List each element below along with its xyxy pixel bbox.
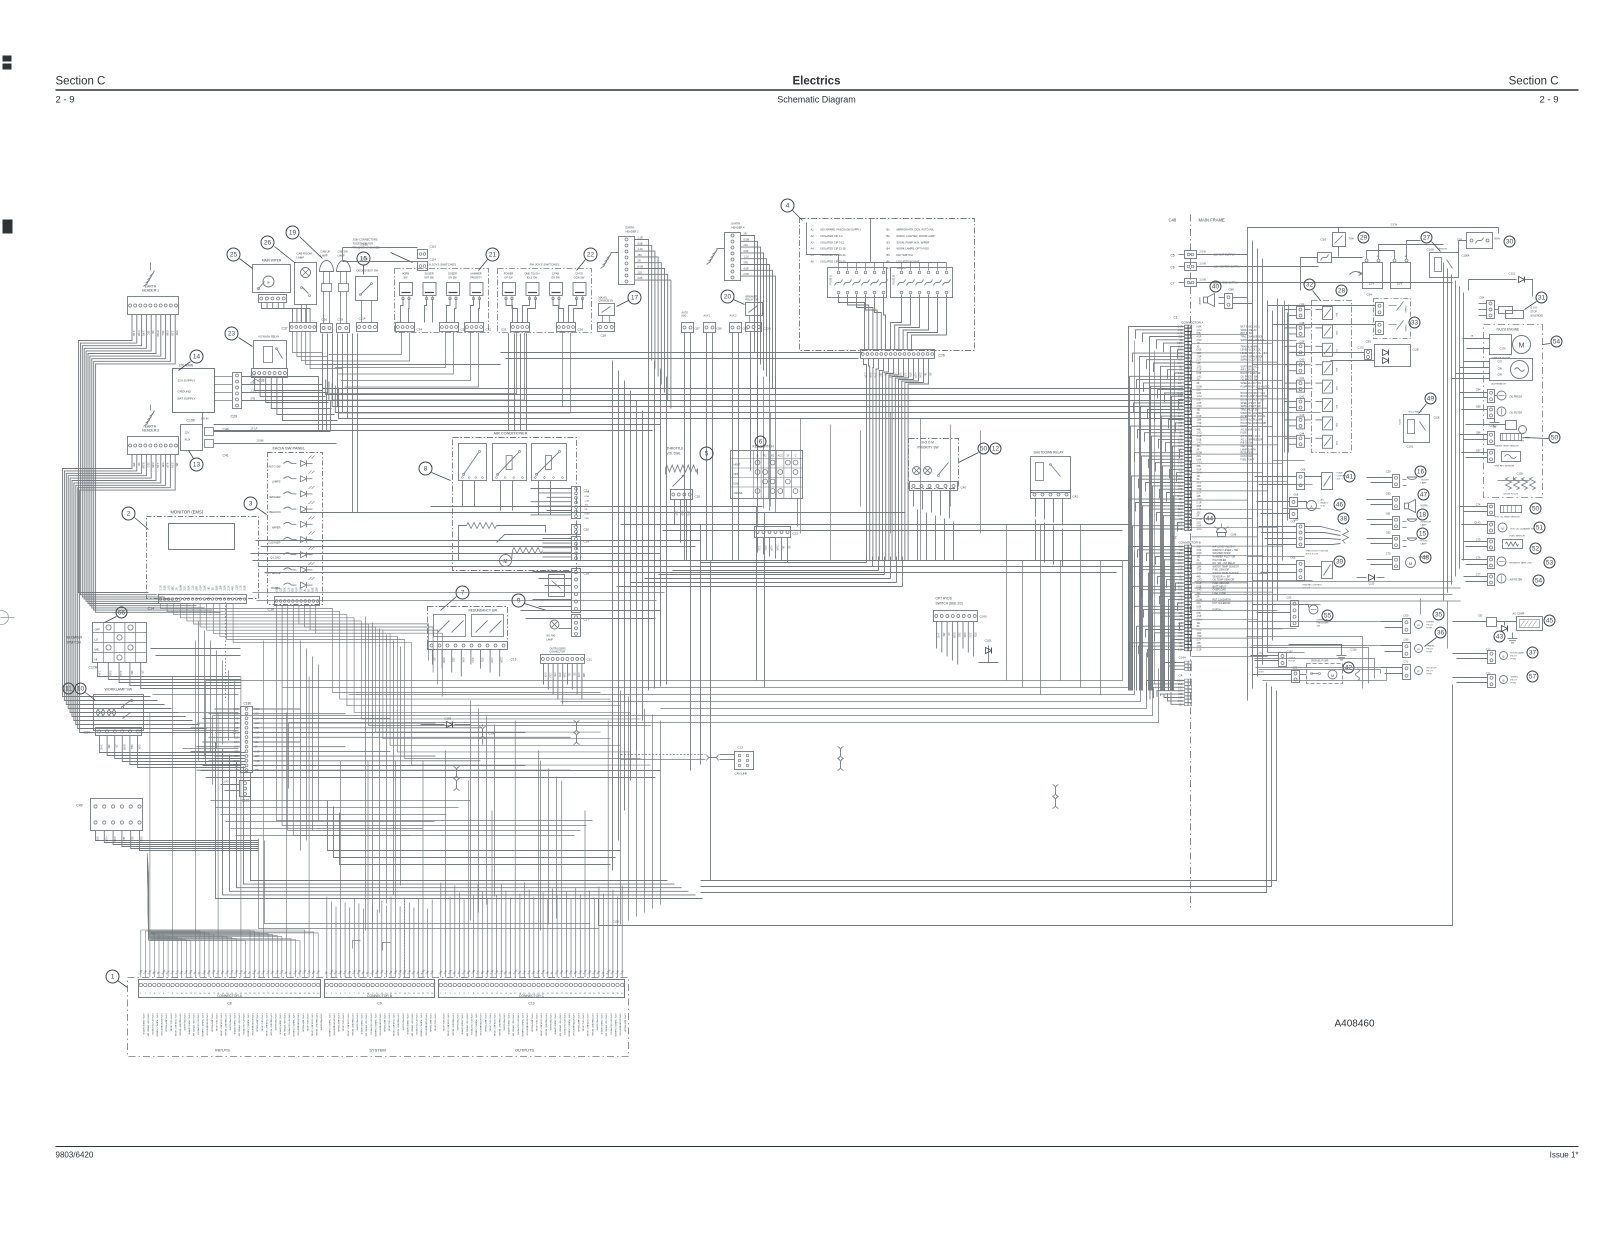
svg-text:C29: C29 bbox=[1386, 470, 1391, 474]
svg-text:UPS HIGH SPEED SW: UPS HIGH SPEED SW bbox=[147, 1014, 149, 1038]
svg-text:BAT SUPPLY: BAT SUPPLY bbox=[178, 397, 196, 401]
left riser bundle from C49 region bbox=[259, 839, 599, 929]
svg-text:19: 19 bbox=[289, 230, 297, 237]
svg-text:4.5P: 4.5P bbox=[296, 587, 299, 592]
worklamp wires bbox=[100, 736, 246, 768]
connector C20 bbox=[671, 490, 701, 500]
facia wires bbox=[277, 606, 593, 836]
main frame divider bbox=[1169, 215, 1225, 909]
callout 54 engine bbox=[1543, 336, 1563, 347]
svg-text:12V: 12V bbox=[1369, 282, 1376, 286]
svg-text:CONNECTOR B: CONNECTOR B bbox=[1179, 541, 1201, 545]
svg-text:1.2U: 1.2U bbox=[548, 673, 550, 678]
svg-text:12W: 12W bbox=[220, 585, 223, 591]
svg-text:UPS PRESSURE: UPS PRESSURE bbox=[502, 1014, 504, 1032]
svg-text:2.2Y: 2.2Y bbox=[1197, 640, 1202, 642]
mid-left distribution horizontals bbox=[153, 695, 471, 836]
mid-left verticals bbox=[199, 617, 557, 931]
svg-text:C98: C98 bbox=[1498, 368, 1503, 371]
svg-text:B3: B3 bbox=[887, 240, 891, 244]
svg-text:C12B: C12B bbox=[613, 920, 620, 924]
svg-text:C75: C75 bbox=[1476, 538, 1481, 542]
monitor wires bbox=[161, 599, 651, 766]
svg-text:C29: C29 bbox=[231, 415, 238, 419]
svg-text:44B: 44B bbox=[1197, 429, 1202, 431]
svg-text:C159: C159 bbox=[445, 717, 452, 721]
callout 40 bbox=[1210, 281, 1221, 292]
svg-text:16L: 16L bbox=[175, 463, 179, 468]
control unit box 14 bbox=[173, 364, 215, 413]
svg-text:KEY SWITCH: KEY SWITCH bbox=[897, 253, 913, 257]
svg-text:SOL: SOL bbox=[1337, 311, 1339, 316]
svg-text:21G: 21G bbox=[452, 658, 455, 663]
svg-text:UPS FUEL LEVEL: UPS FUEL LEVEL bbox=[489, 1014, 491, 1033]
callout 57 bbox=[1527, 671, 1538, 682]
callout 2 bbox=[122, 507, 149, 530]
svg-text:4.5P: 4.5P bbox=[200, 585, 203, 590]
svg-text:49: 49 bbox=[1427, 396, 1435, 403]
alternator bbox=[1452, 359, 1533, 386]
svg-text:SLIDER: SLIDER bbox=[424, 273, 433, 276]
bus J extensions bbox=[701, 683, 1277, 893]
svg-text:UP/TRANSMIT RELAY: UP/TRANSMIT RELAY bbox=[269, 1014, 272, 1037]
battery links bbox=[1350, 241, 1444, 276]
svg-text:UPS KEY ON PRESS: UPS KEY ON PRESS bbox=[415, 1014, 417, 1036]
svg-text:C8: C8 bbox=[227, 1002, 231, 1006]
svg-text:WASHER: WASHER bbox=[269, 495, 280, 499]
vertical trunk x913-955 bbox=[918, 510, 954, 561]
svg-text:UP/TRANSMIT RELAY: UP/TRANSMIT RELAY bbox=[451, 1014, 454, 1037]
header rule bbox=[56, 89, 1579, 91]
svg-text:PILOT: PILOT bbox=[1511, 680, 1518, 682]
svg-text:C100: C100 bbox=[1517, 472, 1524, 476]
svg-text:LAMP: LAMP bbox=[321, 254, 328, 258]
svg-text:C84: C84 bbox=[1476, 388, 1481, 392]
svg-text:2R: 2R bbox=[151, 331, 155, 334]
svg-text:WORKLAMP SW: WORKLAMP SW bbox=[105, 688, 133, 692]
svg-text:OIL FILTER: OIL FILTER bbox=[1510, 412, 1523, 415]
wiper group wires bbox=[497, 489, 572, 557]
svg-text:C172: C172 bbox=[1358, 346, 1365, 350]
engine feeders bbox=[1444, 263, 1464, 601]
svg-text:UPS TRAVEL CHANGE: UPS TRAVEL CHANGE bbox=[521, 1014, 524, 1038]
svg-text:2.5N: 2.5N bbox=[113, 837, 116, 842]
svg-text:7.5R: 7.5R bbox=[1197, 570, 1202, 572]
svg-text:RADIO, LIGHTER, ROOM LAMP: RADIO, LIGHTER, ROOM LAMP bbox=[897, 234, 935, 238]
ac ready switch 46 bbox=[1257, 493, 1329, 522]
connector C26 bbox=[861, 350, 945, 359]
bus I group bbox=[328, 801, 621, 865]
svg-text:A2: A2 bbox=[811, 234, 815, 238]
svg-text:LAMP: LAMP bbox=[1421, 543, 1427, 546]
svg-text:30: 30 bbox=[1506, 239, 1514, 246]
callout 13 bbox=[189, 451, 204, 472]
svg-text:57B: 57B bbox=[196, 586, 199, 591]
svg-text:36: 36 bbox=[1437, 630, 1445, 637]
svg-text:HYD OIL CLEANER SW: HYD OIL CLEANER SW bbox=[1511, 528, 1536, 531]
footer text bbox=[56, 1151, 1579, 1160]
svg-text:MONITOR (EMS): MONITOR (EMS) bbox=[171, 510, 204, 515]
facia switch panel bbox=[266, 446, 323, 605]
svg-text:C92: C92 bbox=[1478, 614, 1483, 618]
svg-text:54: 54 bbox=[1535, 578, 1543, 585]
svg-text:C43: C43 bbox=[1300, 413, 1305, 417]
svg-text:OFF SW: OFF SW bbox=[424, 277, 434, 280]
callout 26 bbox=[261, 236, 295, 263]
hookup pilot pressure switch bbox=[1381, 660, 1438, 680]
callout 15 bbox=[357, 252, 370, 275]
svg-text:4.5P: 4.5P bbox=[1197, 403, 1202, 405]
svg-text:1.2U: 1.2U bbox=[192, 585, 195, 590]
washer pump 48 bbox=[1367, 552, 1429, 570]
shutdown relay bbox=[1031, 451, 1071, 493]
LH joystick switches group 21 bbox=[395, 263, 489, 333]
svg-text:1.2U: 1.2U bbox=[1197, 396, 1202, 398]
svg-text:UPS HIGH SPEED SW: UPS HIGH SPEED SW bbox=[512, 1014, 514, 1038]
callouts 50 12 bbox=[959, 443, 1002, 463]
svg-text:53: 53 bbox=[1546, 560, 1554, 567]
svg-text:8.5W: 8.5W bbox=[180, 584, 183, 590]
svg-text:UPS COOLANT LEVEL: UPS COOLANT LEVEL bbox=[174, 1014, 177, 1038]
pump control sol 41 bbox=[1255, 468, 1348, 490]
svg-text:12W: 12W bbox=[1197, 353, 1203, 355]
svg-text:C80: C80 bbox=[1386, 492, 1391, 496]
callout 6 bbox=[755, 436, 766, 447]
svg-text:0.6S: 0.6S bbox=[1197, 630, 1202, 632]
oil press switch bbox=[1460, 388, 1523, 403]
connector C34b bbox=[396, 323, 423, 332]
mid-right drop verticals bbox=[771, 413, 1101, 695]
svg-text:UP/TRANSMIT RELAY: UP/TRANSMIT RELAY bbox=[224, 1014, 227, 1037]
beacon lamp 44 bbox=[1204, 513, 1237, 537]
svg-text:LAMP: LAMP bbox=[1421, 482, 1427, 485]
breaker relay switch 20 bbox=[746, 296, 771, 332]
connector C21 bbox=[572, 487, 591, 520]
svg-text:8.5W: 8.5W bbox=[1197, 519, 1203, 521]
connector C29 bbox=[215, 373, 331, 431]
svg-text:C10B: C10B bbox=[1434, 417, 1440, 420]
joys strips drop wires bbox=[329, 333, 571, 414]
svg-text:57B: 57B bbox=[175, 331, 179, 336]
svg-text:50: 50 bbox=[980, 446, 988, 453]
svg-text:C4: C4 bbox=[1179, 674, 1183, 678]
svg-text:C22: C22 bbox=[793, 532, 799, 536]
connector block B (C9) bbox=[325, 980, 435, 1006]
svg-text:UPS PRESSURE: UPS PRESSURE bbox=[549, 1014, 551, 1032]
svg-text:UPS FUEL LEVEL: UPS FUEL LEVEL bbox=[535, 1014, 537, 1033]
svg-text:2.1R: 2.1R bbox=[1197, 649, 1202, 651]
svg-text:UP/TRANSMIT RELAY: UP/TRANSMIT RELAY bbox=[591, 1014, 594, 1037]
svg-text:C16: C16 bbox=[268, 608, 275, 612]
svg-text:44: 44 bbox=[1206, 516, 1214, 523]
svg-text:UPS KEY ON PRESS: UPS KEY ON PRESS bbox=[609, 1014, 611, 1036]
svg-text:2.5N: 2.5N bbox=[776, 546, 779, 551]
connector C32b bbox=[465, 323, 492, 332]
connector C42 bbox=[1031, 491, 1079, 499]
earth header 4 fan wires bbox=[741, 233, 776, 513]
svg-text:A/C: A/C bbox=[1321, 499, 1325, 502]
svg-text:C44: C44 bbox=[1300, 431, 1305, 435]
svg-text:C96: C96 bbox=[1229, 288, 1235, 292]
svg-text:3G: 3G bbox=[131, 837, 134, 840]
connector C30 bbox=[557, 323, 584, 332]
callout 55 bbox=[1322, 610, 1333, 621]
svg-text:ACC: ACC bbox=[778, 454, 784, 458]
svg-text:C/HYD: C/HYD bbox=[575, 273, 583, 276]
svg-text:0.8K: 0.8K bbox=[1197, 393, 1202, 395]
svg-text:0.6S: 0.6S bbox=[1197, 350, 1202, 352]
svg-text:B5: B5 bbox=[887, 253, 891, 257]
svg-text:FACIA SW PANEL: FACIA SW PANEL bbox=[273, 446, 307, 451]
svg-text:READY: READY bbox=[1321, 502, 1329, 505]
svg-text:57B: 57B bbox=[1197, 547, 1202, 549]
svg-text:3G: 3G bbox=[1197, 413, 1200, 415]
svg-text:8.5W: 8.5W bbox=[952, 633, 955, 639]
callout 4 bbox=[781, 199, 803, 221]
glow plugs bbox=[1498, 472, 1536, 496]
connector C22 bbox=[755, 499, 799, 538]
svg-text:A/C COMP: A/C COMP bbox=[1513, 613, 1525, 616]
svg-text:4.5P: 4.5P bbox=[1197, 337, 1202, 339]
svg-text:1.5O: 1.5O bbox=[1197, 366, 1202, 368]
svg-text:PILOT: PILOT bbox=[1427, 649, 1434, 651]
svg-text:UPS LAMP RELAY: UPS LAMP RELAY bbox=[530, 1014, 533, 1033]
connector C36b bbox=[337, 318, 350, 333]
callout 5 bbox=[700, 447, 713, 460]
connector C86 aux1 bbox=[704, 315, 723, 333]
svg-text:8.5W: 8.5W bbox=[276, 586, 279, 592]
svg-text:DECK EVENT SW: DECK EVENT SW bbox=[357, 269, 379, 273]
svg-text:4.5P: 4.5P bbox=[1197, 550, 1202, 552]
svg-text:12W: 12W bbox=[1197, 566, 1203, 568]
blower switch bbox=[67, 623, 147, 670]
svg-text:C37: C37 bbox=[282, 327, 288, 331]
svg-text:23: 23 bbox=[228, 331, 236, 338]
connector C87 auto idle bbox=[682, 312, 701, 333]
svg-text:HORN: HORN bbox=[402, 273, 410, 276]
svg-text:0.5B: 0.5B bbox=[244, 585, 247, 590]
svg-text:3G: 3G bbox=[1197, 346, 1200, 348]
callout 46 bbox=[1334, 499, 1345, 510]
svg-text:STOP: STOP bbox=[1531, 311, 1538, 314]
bus upper mid bbox=[323, 353, 863, 365]
aux connector wires down bbox=[685, 332, 758, 561]
svg-text:B: B bbox=[757, 454, 759, 458]
callout 18b bbox=[1417, 509, 1428, 520]
svg-text:2.5N: 2.5N bbox=[300, 587, 303, 592]
svg-text:HAMMER: HAMMER bbox=[470, 273, 481, 276]
svg-text:UPS BOOM/ARM RLK: UPS BOOM/ARM RLK bbox=[251, 1014, 254, 1037]
svg-text:LH JOYS SWITCHES: LH JOYS SWITCHES bbox=[427, 263, 456, 267]
svg-text:PUMP PROP SOL + LOAD: PUMP PROP SOL + LOAD bbox=[1241, 385, 1270, 388]
svg-text:UPS COOLANT LEVEL: UPS COOLANT LEVEL bbox=[219, 1014, 222, 1038]
svg-text:2S BK: 2S BK bbox=[257, 439, 265, 443]
svg-text:1.5O: 1.5O bbox=[1197, 433, 1202, 435]
svg-text:43: 43 bbox=[1496, 634, 1504, 641]
svg-text:35C: 35C bbox=[942, 633, 945, 638]
svg-text:1.4G: 1.4G bbox=[638, 248, 643, 251]
svg-text:2.1R: 2.1R bbox=[132, 331, 136, 337]
svg-text:St: St bbox=[787, 454, 790, 458]
svg-text:21G: 21G bbox=[280, 588, 283, 593]
svg-text:C9: C9 bbox=[377, 1002, 381, 1006]
water temp sensor bbox=[1460, 431, 1522, 448]
svg-text:UPS FUEL LEVEL: UPS FUEL LEVEL bbox=[388, 1014, 390, 1033]
svg-text:1.4G: 1.4G bbox=[224, 782, 229, 784]
connector C83 bbox=[1253, 666, 1300, 683]
svg-text:IGN: IGN bbox=[734, 482, 739, 486]
facia pin strip C16 bbox=[268, 586, 320, 611]
callout 29 bbox=[1358, 232, 1369, 243]
svg-text:57B: 57B bbox=[974, 633, 977, 638]
washer relay 49 bbox=[1400, 411, 1440, 449]
shutdown wires bbox=[1036, 499, 1063, 526]
svg-text:0.8K: 0.8K bbox=[1197, 606, 1202, 608]
svg-text:P.SW: P.SW bbox=[1511, 683, 1517, 685]
svg-text:0.5B: 0.5B bbox=[681, 511, 684, 516]
callout 45 bbox=[1544, 615, 1555, 626]
quick hitch connector C157 bbox=[1251, 650, 1296, 667]
room lamp pilot switch 37 bbox=[1453, 648, 1525, 664]
RH joystick switches group 22 bbox=[498, 263, 592, 333]
connector column A comb wires bbox=[1129, 327, 1185, 691]
page registration target left-middle bbox=[0, 611, 15, 625]
svg-text:SWING LOCK SOL: SWING LOCK SOL bbox=[1241, 359, 1262, 362]
svg-text:1.2U: 1.2U bbox=[968, 633, 971, 638]
svg-text:2.5N: 2.5N bbox=[1197, 340, 1202, 342]
svg-text:INPUTS: INPUTS bbox=[215, 1048, 230, 1053]
earth header 1 wires bbox=[79, 315, 180, 589]
battery 2 bbox=[1391, 254, 1411, 289]
svg-text:C87: C87 bbox=[695, 327, 701, 331]
svg-text:2.2Y: 2.2Y bbox=[1197, 360, 1202, 362]
svg-text:PILOT: PILOT bbox=[1427, 671, 1434, 673]
svg-text:UPS BOOM/ARM RLK: UPS BOOM/ARM RLK bbox=[333, 1014, 336, 1037]
join connector wires bbox=[343, 244, 418, 262]
connector C114 bbox=[357, 317, 378, 332]
connector C4 block bbox=[1147, 674, 1192, 707]
svg-text:HYD OIL TEMP SENSOR: HYD OIL TEMP SENSOR bbox=[1495, 517, 1521, 519]
svg-text:35C: 35C bbox=[1259, 653, 1263, 655]
page registration mark left bbox=[3, 220, 13, 234]
svg-text:T/LIGHT: T/LIGHT bbox=[1421, 480, 1430, 482]
boom priority switch bbox=[909, 439, 959, 489]
diode C161 bbox=[979, 639, 999, 663]
ac compressor 45 bbox=[1453, 613, 1543, 643]
svg-text:UPS LOWER WIPER: UPS LOWER WIPER bbox=[507, 1014, 509, 1035]
bus D group bbox=[251, 541, 1129, 573]
callout 8 bbox=[419, 462, 451, 481]
svg-text:KEY/SPARE, FASCIA SW SUPPLY: KEY/SPARE, FASCIA SW SUPPLY bbox=[821, 228, 862, 232]
svg-text:1.4G: 1.4G bbox=[119, 671, 122, 676]
twist pair symbols middle bbox=[454, 721, 1059, 809]
svg-text:45: 45 bbox=[1546, 618, 1554, 625]
connector C31 bbox=[501, 323, 530, 332]
svg-text:4: 4 bbox=[786, 203, 790, 210]
svg-text:2.5 W: 2.5 W bbox=[1391, 224, 1398, 227]
svg-text:C48: C48 bbox=[1169, 218, 1177, 223]
svg-text:SOL Y: SOL Y bbox=[1337, 479, 1344, 481]
svg-text:21G: 21G bbox=[585, 518, 589, 520]
svg-text:35C: 35C bbox=[130, 671, 133, 676]
svg-text:41: 41 bbox=[1346, 474, 1354, 481]
svg-text:2R: 2R bbox=[585, 509, 588, 511]
svg-text:0.5B: 0.5B bbox=[869, 373, 872, 378]
svg-text:C30: C30 bbox=[578, 328, 584, 332]
redundancy wires bbox=[433, 650, 503, 677]
svg-text:UPS KEY ON PRESS: UPS KEY ON PRESS bbox=[151, 1014, 153, 1036]
svg-text:4.5P: 4.5P bbox=[1197, 469, 1202, 471]
svg-text:2R: 2R bbox=[141, 671, 144, 674]
svg-text:32: 32 bbox=[1306, 282, 1314, 289]
svg-text:C111: C111 bbox=[1509, 272, 1516, 276]
svg-text:UPS FUEL LEVEL: UPS FUEL LEVEL bbox=[442, 1014, 444, 1033]
svg-text:C116: C116 bbox=[1351, 648, 1358, 652]
svg-text:UPS LOWER WIPER: UPS LOWER WIPER bbox=[360, 1014, 362, 1035]
svg-text:UPS TRAVEL CHANGE: UPS TRAVEL CHANGE bbox=[475, 1014, 478, 1038]
worklamp switch bbox=[84, 688, 144, 736]
svg-text:FUSE B: FUSE B bbox=[892, 275, 896, 285]
vertical trunk right comb extras bbox=[1135, 341, 1175, 689]
svg-text:C38: C38 bbox=[259, 379, 265, 383]
fuse C93 bbox=[1301, 253, 1363, 291]
svg-text:35C: 35C bbox=[1197, 512, 1202, 514]
svg-text:C92: C92 bbox=[1321, 238, 1327, 242]
svg-text:IN/G: IN/G bbox=[682, 315, 687, 318]
callout 51 bbox=[1534, 522, 1545, 533]
svg-text:0.8K: 0.8K bbox=[963, 633, 966, 638]
monitor pin strip C14 bbox=[148, 584, 247, 610]
C180 wires bbox=[191, 709, 571, 770]
svg-text:WORK LAMPS, OPT HYDS: WORK LAMPS, OPT HYDS bbox=[897, 247, 930, 251]
svg-text:2.5N: 2.5N bbox=[204, 585, 207, 590]
svg-text:C110: C110 bbox=[764, 327, 771, 331]
svg-text:UPS TRAVEL CHANGE: UPS TRAVEL CHANGE bbox=[201, 1014, 204, 1038]
svg-text:2T LP: 2T LP bbox=[251, 427, 258, 431]
svg-text:12V MAIN: 12V MAIN bbox=[179, 364, 194, 368]
svg-text:1: 1 bbox=[111, 974, 115, 981]
opt hyds wires bbox=[937, 622, 977, 665]
legend box 4 outline bbox=[800, 219, 975, 351]
svg-text:13: 13 bbox=[193, 462, 201, 469]
svg-text:UPS BOOM/ARM RLK: UPS BOOM/ARM RLK bbox=[297, 1014, 300, 1037]
fuse block B bbox=[891, 263, 953, 298]
solenoid bank feeders bbox=[1285, 301, 1289, 453]
svg-text:35C: 35C bbox=[132, 463, 136, 468]
connector C20b bbox=[572, 525, 590, 535]
svg-text:27: 27 bbox=[1423, 235, 1431, 242]
svg-text:2.1R: 2.1R bbox=[1197, 436, 1202, 438]
earth header 2 (vertical) bbox=[601, 226, 640, 285]
svg-text:UPS LOWER WIPER: UPS LOWER WIPER bbox=[600, 1014, 602, 1035]
svg-text:Schematic Diagram: Schematic Diagram bbox=[777, 95, 856, 105]
svg-text:B7: B7 bbox=[887, 266, 891, 270]
refuel spring symbol bbox=[1356, 669, 1360, 681]
svg-text:C86: C86 bbox=[717, 327, 723, 331]
connector C199 block bbox=[181, 417, 229, 458]
svg-text:C65: C65 bbox=[1291, 556, 1296, 560]
air conditioner wires bbox=[463, 481, 551, 515]
svg-text:P: P bbox=[1417, 624, 1419, 628]
svg-text:4.5P: 4.5P bbox=[914, 373, 917, 378]
svg-text:57B: 57B bbox=[1197, 400, 1202, 402]
fuse supply rails bbox=[807, 219, 947, 263]
svg-text:UPS COOLANT LEVEL: UPS COOLANT LEVEL bbox=[586, 1014, 589, 1038]
svg-text:0.8K: 0.8K bbox=[744, 250, 749, 253]
svg-text:51: 51 bbox=[1536, 525, 1544, 532]
svg-text:C148: C148 bbox=[1231, 534, 1237, 537]
svg-text:ISUZU ENGINE: ISUZU ENGINE bbox=[1497, 328, 1520, 332]
